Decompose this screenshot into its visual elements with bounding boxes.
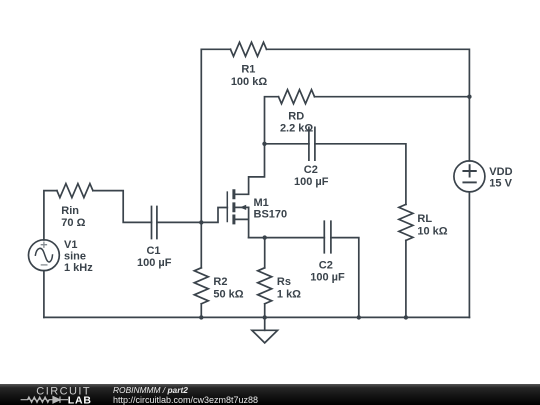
capacitor C2 top plates bbox=[309, 127, 315, 160]
wire RL bottom bbox=[405, 240, 407, 317]
wire R2 bottom bbox=[200, 304, 202, 318]
node ground junction bbox=[263, 315, 267, 319]
capacitor C1 plates bbox=[152, 207, 157, 239]
transistor M1 body lead bbox=[235, 206, 249, 208]
logo squiggle wire bbox=[21, 397, 68, 403]
node gate junction bbox=[199, 220, 203, 224]
wire top loop R1 left lead bbox=[201, 48, 230, 50]
footer title bbox=[113, 386, 188, 396]
resistor Rin bbox=[57, 184, 93, 198]
wire C2 top right to RL bbox=[315, 144, 406, 205]
capacitor C2 bottom plates bbox=[324, 221, 331, 253]
svg-text:10 kΩ: 10 kΩ bbox=[417, 226, 447, 238]
svg-text:LAB: LAB bbox=[68, 394, 92, 405]
svg-text:C1: C1 bbox=[146, 245, 160, 257]
node drain junction bbox=[262, 142, 266, 146]
VDD minus sign bbox=[463, 181, 475, 183]
resistor R2 bbox=[194, 268, 208, 304]
svg-text:2.2 kΩ: 2.2 kΩ bbox=[280, 122, 313, 134]
svg-text:100 kΩ: 100 kΩ bbox=[231, 76, 268, 88]
wire drain jog to MOSFET bbox=[235, 144, 265, 195]
svg-text:70 Ω: 70 Ω bbox=[61, 217, 85, 229]
svg-text:100 µF: 100 µF bbox=[310, 272, 345, 284]
node RD-VDD junction bbox=[467, 95, 471, 99]
logo CIRCUIT LAB bbox=[0, 384, 110, 405]
svg-text:sine: sine bbox=[64, 250, 86, 262]
wire VDD bottom bbox=[468, 192, 470, 317]
V1 plus sign bbox=[41, 242, 47, 248]
wire left vertical R1 to gate node bbox=[200, 49, 202, 222]
svg-text:Rs: Rs bbox=[277, 276, 291, 288]
wire Rs bottom bbox=[264, 304, 266, 318]
V1 minus sign bbox=[41, 264, 48, 266]
source V1 sine bbox=[35, 248, 52, 262]
svg-text:1 kHz: 1 kHz bbox=[64, 262, 93, 274]
wire RD left vertical bbox=[265, 97, 279, 144]
wire V1 top to Rin bbox=[44, 191, 57, 240]
wire gate node down to R2 bbox=[200, 222, 202, 267]
wire source to C2 bottom left plate bbox=[249, 237, 325, 239]
transistor M1 source lead and vertical bbox=[235, 207, 249, 237]
footer url bbox=[113, 396, 258, 405]
source VDD circle bbox=[454, 161, 485, 192]
wire bottom rail bbox=[44, 316, 470, 318]
svg-text:100 µF: 100 µF bbox=[137, 257, 172, 269]
wire V1 bottom bbox=[43, 271, 45, 318]
wire drain node to C2 left plate bbox=[265, 143, 309, 145]
wire Rin right to C1 bbox=[93, 191, 152, 223]
svg-text:RL: RL bbox=[417, 213, 432, 225]
svg-text:C2: C2 bbox=[319, 260, 333, 272]
svg-text:RD: RD bbox=[288, 111, 304, 123]
svg-text:M1: M1 bbox=[254, 197, 269, 209]
resistor Rs bbox=[258, 268, 272, 304]
node C2 bottom junction bbox=[357, 315, 361, 319]
wire C1 to gate node bbox=[157, 221, 201, 223]
svg-text:100 µF: 100 µF bbox=[294, 176, 329, 188]
transistor M1 gate bar bbox=[226, 192, 228, 221]
resistor RD bbox=[279, 90, 315, 104]
node RL bottom junction bbox=[404, 315, 408, 319]
M1 arrow head bbox=[240, 205, 246, 210]
transistor M1 channel bars bbox=[232, 189, 235, 224]
svg-text:R1: R1 bbox=[241, 64, 255, 76]
ground triangle bbox=[252, 330, 278, 343]
node R2 bottom junction bbox=[199, 315, 203, 319]
resistor R1 bbox=[231, 42, 267, 56]
wire R1 right to VDD top bbox=[267, 49, 470, 161]
svg-text:1 kΩ: 1 kΩ bbox=[277, 288, 301, 300]
node source junction bbox=[263, 235, 267, 239]
wire C2 bottom right down bbox=[331, 238, 359, 318]
VDD plus sign bbox=[463, 165, 475, 176]
ground stub bbox=[264, 317, 266, 330]
svg-text:BS170: BS170 bbox=[254, 208, 288, 220]
resistor RL bbox=[399, 204, 413, 240]
svg-text:50 kΩ: 50 kΩ bbox=[213, 288, 243, 300]
wire RD right to VDD wire bbox=[315, 96, 470, 98]
svg-text:V1: V1 bbox=[64, 239, 77, 251]
source V1 circle bbox=[29, 240, 60, 271]
svg-text:VDD: VDD bbox=[489, 166, 512, 178]
svg-text:C2: C2 bbox=[304, 164, 318, 176]
wire gate lead bbox=[201, 208, 227, 223]
svg-text:15 V: 15 V bbox=[489, 178, 512, 190]
svg-text:R2: R2 bbox=[213, 276, 227, 288]
svg-text:Rin: Rin bbox=[61, 205, 79, 217]
wire Rs top bbox=[264, 238, 266, 268]
